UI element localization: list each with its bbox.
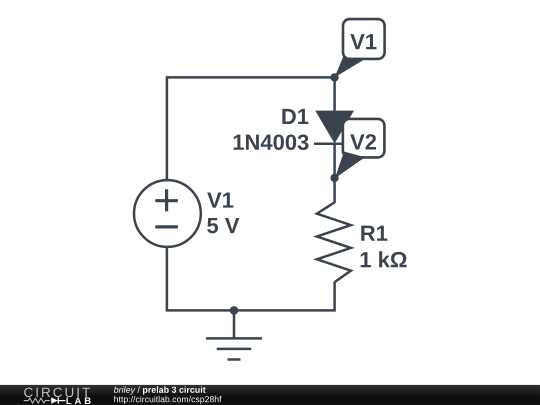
node flag V2 box [343,119,385,157]
node flag V1 text [350,34,376,49]
diode cathode bar + label pointer line [314,142,353,145]
label 1 kΩ [361,251,407,267]
junction dot at node V1 [330,73,338,81]
ground stem [233,310,236,338]
label D1 [282,109,308,124]
footer bar [0,385,540,405]
footer line 2: url [114,396,221,404]
junction dot ground node [230,306,239,315]
logo resistor squiggle [24,398,50,403]
label 5 V (source value) [207,218,239,233]
ground bar 1 [206,337,262,340]
resistor R1 zigzag [317,202,351,282]
voltage source V1 minus sign [155,225,178,228]
node flag V1 pointer tail [335,54,366,78]
node flag V1 box [343,19,385,59]
junction dot at node V2 [330,174,338,182]
label 1N4003 [234,134,309,150]
logo CIRCUIT text [24,388,90,398]
diode D1 triangle [316,111,353,142]
logo diode symbol [51,397,58,403]
voltage source V1 plus sign [155,189,178,211]
label R1 [361,226,387,241]
wire: left vertical + top horizontal + down to diode anode [167,77,335,181]
footer line 1: briley / prelab 3 circuit [114,386,206,394]
voltage source V1 [134,180,201,247]
node flag V2 pointer tail [335,152,365,179]
wire: diode cathode down to resistor top [333,144,336,203]
ground bar 3 [228,358,241,361]
logo LAB text [66,397,90,404]
label V1 (source name) [207,192,233,207]
ground bar 2 [217,348,252,351]
wire: source bottom + bottom horizontal + up to resistor [167,246,335,310]
node flag V2 text [350,134,376,149]
